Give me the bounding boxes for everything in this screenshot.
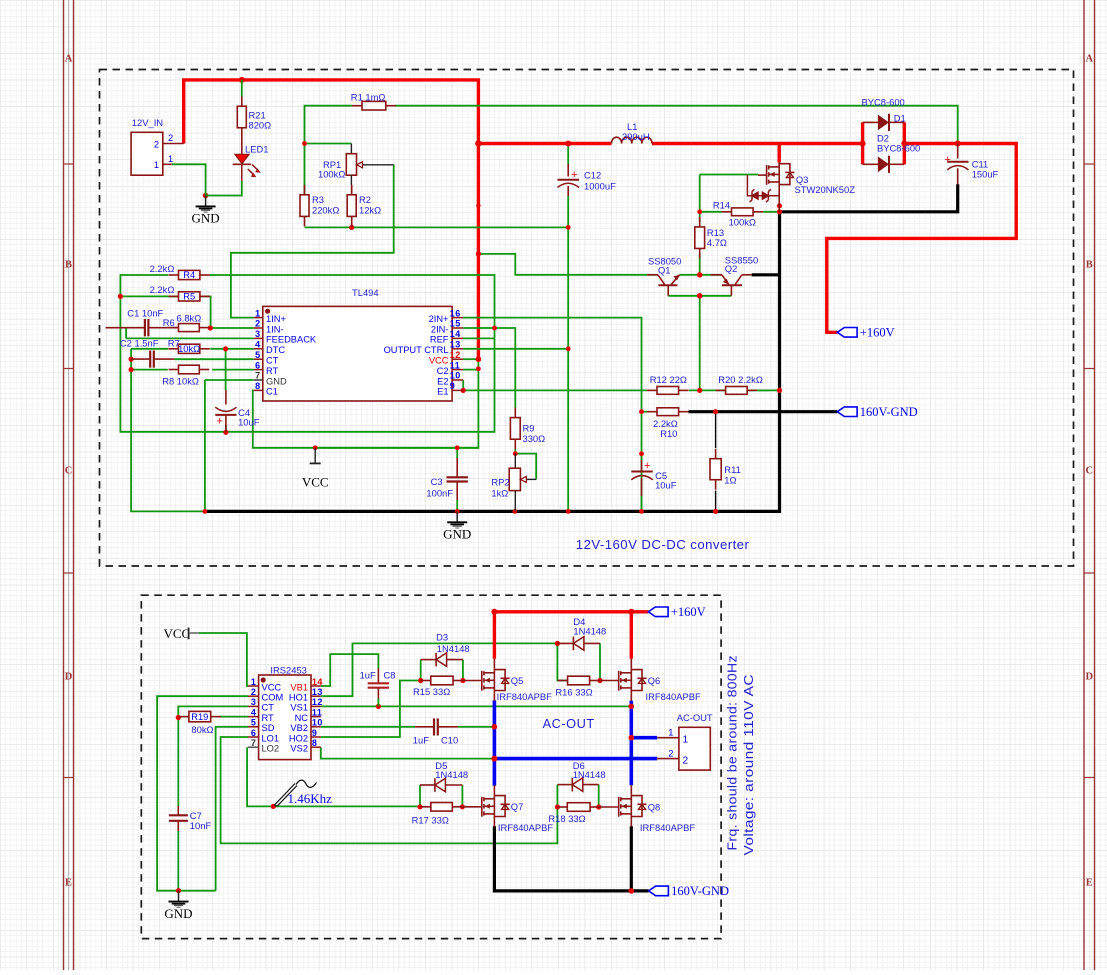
svg-text:CT: CT [266,356,279,366]
svg-text:A: A [65,54,73,65]
svg-text:100kΩ: 100kΩ [729,217,756,228]
svg-text:A: A [1086,54,1094,65]
svg-text:R7: R7 [168,337,180,348]
net flag +160V [648,605,705,619]
wire Q7 leads [493,785,495,794]
resistor R12 [647,387,689,395]
wire Q3 drain lead [778,162,780,167]
junction [476,356,482,362]
svg-text:1: 1 [668,728,673,738]
wire TL494 2IN- to R9 [463,328,515,408]
ground [443,511,471,541]
svg-text:2: 2 [255,319,261,329]
svg-text:220kΩ: 220kΩ [312,204,339,215]
svg-text:GND: GND [192,211,220,226]
wire Q6 leads [630,659,632,668]
resistor R8 [169,365,210,374]
sheet frame left border [64,0,74,970]
junction [513,451,518,456]
svg-text:VB2: VB2 [290,723,308,733]
svg-text:11: 11 [312,707,323,717]
wire Q8 leads [630,785,632,794]
wire driver bases tie [668,295,731,297]
pin 9 HO2 [311,736,321,738]
wire R1 to rectifier sense [395,106,958,144]
svg-text:HO1: HO1 [289,693,308,703]
resistor R13 [695,217,705,259]
svg-text:4.7Ω: 4.7Ω [707,237,727,248]
svg-text:SD: SD [262,723,275,733]
wire divider top to RP1 [305,143,352,145]
wire REF stub [463,337,494,339]
wire C1 left to FEEDBACK [125,328,127,338]
svg-text:4: 4 [255,340,261,350]
capacitor C3 [426,458,468,500]
pin 13 HO1 [311,695,321,697]
svg-text:+: + [945,154,951,166]
wire Q3 gate lead [758,174,766,176]
wire R5 left [120,295,209,297]
junction [566,225,571,230]
junction [129,367,134,372]
svg-text:VCC: VCC [164,626,191,641]
pin 11 NC [311,716,321,718]
capacitor C10 [413,718,458,745]
svg-text:E: E [1086,878,1093,889]
wire +160V to Q6 drain [630,612,633,659]
potentiometer RP2 [491,454,536,512]
pin 2 COM [248,695,259,697]
transistor Q2 SS8550 [711,255,759,296]
wire R7 to DTC pin [210,348,253,350]
svg-text:R16 33Ω: R16 33Ω [555,687,592,698]
junction [639,451,644,456]
wire R12 to R20 [689,389,769,391]
svg-text:15: 15 [450,319,461,329]
pin 6 LO1 [248,736,259,738]
wire ground bus [205,212,780,512]
resistor R19 [179,711,221,721]
junction [629,735,635,741]
potentiometer RP1 [318,144,394,186]
wire TL494 2IN+ feedback net [463,318,641,512]
wire E2 to E1 tie [462,380,464,390]
wire VS1 to bridge leg [321,705,632,707]
pin 14 VB1 [311,685,321,687]
junction [129,357,134,362]
wire Q5 leads [493,659,495,668]
wire LO1 to R18/D6 [221,737,558,843]
resistor R17 [421,803,463,812]
svg-text:1N4148: 1N4148 [573,769,606,780]
svg-text:IRF840APBF: IRF840APBF [640,822,696,833]
svg-text:2: 2 [168,133,173,143]
wire R8 left [131,369,168,371]
connector 12V_IN [131,117,184,175]
svg-text:OUTPUT CTRL: OUTPUT CTRL [384,345,449,355]
diode D6 1N4148 [557,778,598,792]
junction [492,326,497,331]
svg-text:Q2: Q2 [725,263,738,274]
svg-text:C10: C10 [441,735,458,746]
pin 3 CT [248,705,259,707]
svg-text:E1: E1 [437,387,448,397]
wire 12V rail to L1 [478,142,611,145]
wire RP1 to R2 [351,185,353,194]
wire rectifier output to +160V flag [827,144,1016,333]
svg-text:6.8kΩ: 6.8kΩ [177,312,202,323]
wire C2/R8 left rail to ground bus [131,359,205,511]
svg-text:1uF: 1uF [360,670,376,681]
junction [697,272,703,278]
resistor R9 [510,408,520,450]
svg-text:+160V: +160V [671,605,706,619]
svg-text:STW20NK50Z: STW20NK50Z [795,184,856,195]
transistor Q3 STW20NK50Z N-MOSFET [767,162,795,188]
wire VB2 to C10 [321,726,415,728]
wire VCC symbol row [315,447,478,449]
wire R7 left down [130,349,132,359]
svg-text:R1 1mΩ: R1 1mΩ [351,91,386,102]
junction [203,509,208,514]
svg-text:9: 9 [312,728,318,738]
svg-text:FEEDBACK: FEEDBACK [266,335,317,345]
svg-text:D1: D1 [894,113,906,124]
resistor R20 [716,387,758,395]
wire ground link [179,890,216,892]
svg-text:DTC: DTC [266,345,285,355]
resistor R10 [647,408,689,416]
svg-text:12kΩ: 12kΩ [359,204,381,215]
wire CT to C7 [178,706,248,806]
wire D4 to R16 left [557,643,567,680]
wire D5 anode branch [461,785,463,807]
resistor R1 [352,101,396,110]
wire R17 to Q7 gate [462,806,481,808]
svg-text:1IN+: 1IN+ [266,314,286,324]
diode D5 1N4148 [420,778,462,792]
pin 5 CT [254,358,263,360]
svg-text:C2 1.5nF: C2 1.5nF [120,337,159,348]
wire C12 minus to ground bus [567,196,569,511]
wire D6 anode branch [598,785,600,807]
svg-text:13: 13 [450,340,461,350]
svg-text:IRS2453: IRS2453 [270,664,306,675]
svg-text:IRF840APBF: IRF840APBF [498,822,554,833]
wire R3 bottom to C12 [305,226,569,228]
svg-text:TL494: TL494 [352,287,379,298]
wire R13 bottom to driver [699,254,701,275]
wire R16 to Q6 gate [600,680,618,682]
svg-text:GND: GND [443,527,471,542]
pin 10 VB2 [311,726,321,728]
pin 13 OUTPUT CTRL [452,348,463,350]
svg-text:R15 33Ω: R15 33Ω [413,686,450,697]
svg-text:12: 12 [312,697,323,707]
svg-text:100nF: 100nF [426,488,453,499]
wire C2 to CT pin [174,358,254,360]
svg-text:+: + [644,460,650,472]
pin 15 2IN- [452,327,463,329]
junction [860,141,866,147]
wire RP2 wiper loop [515,454,536,480]
resistor R15 [421,676,463,685]
svg-text:10uF: 10uF [655,480,677,491]
pin 2 1IN- [254,327,263,329]
svg-text:3: 3 [255,329,261,339]
svg-text:8: 8 [255,381,261,391]
resistor R5 [169,292,210,302]
svg-text:RT: RT [266,366,279,376]
wire D4 anode to R16 right [599,643,601,680]
svg-text:HO2: HO2 [289,733,308,743]
wire gate drive to Q3 [700,174,758,176]
wire C8 to VS1 [377,699,379,707]
junction [639,409,644,414]
pin 1 1IN+ [254,317,263,319]
svg-text:2.2kΩ: 2.2kΩ [150,263,175,274]
pin 5 SD [248,726,259,728]
svg-text:8: 8 [312,738,318,748]
svg-text:Voltage: around 110V AC: Voltage: around 110V AC [742,674,757,855]
wire R8 to RT pin [212,369,254,371]
junction [118,294,123,299]
svg-text:Q6: Q6 [648,675,661,686]
capacitor C7 [169,806,212,831]
wire R10 left stub [642,411,648,413]
capacitor C2 [120,337,174,367]
svg-text:VB1: VB1 [290,682,308,692]
wire AC output 2 (blue) [494,757,657,761]
junction [697,293,703,299]
wire VCC pin to C1 pin net [253,359,479,448]
wire E1 to R12 [463,389,647,391]
wire +160V bus [494,610,648,613]
svg-text:1Ω: 1Ω [724,475,736,486]
svg-text:1IN-: 1IN- [266,324,284,334]
wire 12V_IN pin1 to ground [172,164,206,195]
pin 11 C2 [452,369,463,371]
wire bridge leg B (blue) [629,701,633,786]
svg-text:1N4148: 1N4148 [573,626,606,637]
junction [417,804,422,809]
svg-text:100kΩ: 100kΩ [318,169,345,180]
wire COM to ground [157,696,248,891]
pin 4 DTC [254,348,263,350]
wire C3 bottom to ground [456,500,458,511]
svg-text:5: 5 [251,718,257,728]
wire GND pin [205,379,254,381]
svg-text:GND: GND [266,376,287,386]
wire VCC branch to Q1 collector [478,254,647,275]
svg-text:R11: R11 [724,464,741,475]
svg-text:GND: GND [164,906,192,921]
svg-text:E2: E2 [437,376,448,386]
svg-text:1: 1 [255,308,261,318]
junction [597,678,602,683]
svg-text:12V-160V DC-DC converter: 12V-160V DC-DC converter [576,537,750,552]
svg-text:B: B [65,260,72,271]
transistor Q8 IRF840APBF [619,794,647,820]
svg-text:1kΩ: 1kΩ [491,488,508,499]
svg-text:3: 3 [251,697,257,707]
svg-text:10: 10 [450,371,461,381]
svg-text:BYC8-600: BYC8-600 [862,96,905,107]
junction [513,509,518,514]
svg-text:VS2: VS2 [290,744,308,754]
diode D3 1N4148 [421,653,463,667]
svg-text:330Ω: 330Ω [523,433,546,444]
junction [629,888,635,894]
transistor Q6 IRF840APBF [619,668,647,694]
svg-text:16: 16 [450,308,461,318]
wire R4/REF rail loop [120,275,494,432]
svg-text:7: 7 [251,738,257,748]
resistor R3 [300,185,309,227]
junction [476,203,480,207]
wire R11 bottom lead [715,491,717,512]
svg-text:C12: C12 [584,170,601,181]
svg-text:R8 10kΩ: R8 10kΩ [162,375,199,386]
wire D1/D2 left bus [861,122,864,164]
wire AC output 1 (blue) [631,736,657,740]
wire HO2 to R15/D3 [321,681,421,738]
junction [955,141,961,147]
svg-text:2.2kΩ: 2.2kΩ [150,284,175,295]
svg-text:7: 7 [255,371,261,381]
wire gate node to R14 [699,175,701,212]
svg-text:Q1: Q1 [658,264,671,275]
resistor R4 [169,270,210,280]
probe marker 1.46Khz [275,780,317,806]
junction [628,609,634,615]
junction [555,641,560,646]
wire R9 to RP2 [514,449,516,454]
LED LED1 [233,138,269,181]
capacitor C8 [360,669,396,699]
svg-text:R18 33Ω: R18 33Ω [548,813,585,824]
junction [713,409,718,414]
power symbol VCC [164,626,199,641]
wire Q8 source to 160V-GND [630,826,633,891]
svg-text:R17 33Ω: R17 33Ω [412,815,449,826]
svg-text:E: E [65,878,72,889]
svg-text:150uF: 150uF [972,169,999,180]
svg-text:C1: C1 [266,387,278,397]
dashed box inverter section [141,595,721,938]
pin 12 VCC [452,358,463,360]
svg-text:6: 6 [255,360,261,370]
wire rail to C12 [567,144,569,165]
pin 3 FEEDBACK [254,337,263,339]
svg-text:390uH: 390uH [622,131,650,142]
diode D4 1N4148 [557,637,600,651]
svg-text:2: 2 [251,687,257,697]
wire R13 top [699,212,701,222]
wire DTC to C4 [225,349,227,390]
capacitor C4 [215,390,259,432]
junction [901,141,907,147]
wire bridge leg A (blue) [493,700,497,785]
svg-text:B: B [1086,260,1093,271]
svg-text:COM: COM [262,693,284,703]
diode D2 BYC8-600 [863,133,921,173]
svg-text:C3: C3 [431,476,443,487]
svg-text:2: 2 [668,749,673,759]
svg-text:R19: R19 [191,712,208,722]
svg-text:1N4148: 1N4148 [435,769,468,780]
wire TL494 OUTPUT CTRL to ground net [463,348,568,350]
svg-text:1: 1 [251,677,257,687]
svg-text:2: 2 [683,756,689,767]
svg-text:LED1: LED1 [245,143,268,154]
net flag +160V [837,326,894,340]
wire C2 pin to VCC net [463,369,478,371]
pin 10 E2 [452,379,463,381]
junction [565,141,571,147]
wire D1/D2 right bus [903,122,906,164]
wire rail to R21 [241,80,243,97]
svg-text:RP2: RP2 [491,477,509,488]
svg-text:NC: NC [295,713,309,723]
svg-text:4: 4 [251,707,257,717]
diode D1 BYC8-600 [863,113,906,132]
junction [176,888,181,893]
op-amp U1 TL494 PWM controller IC [254,287,464,401]
svg-text:Q5: Q5 [511,675,524,686]
svg-text:80kΩ: 80kΩ [191,724,213,735]
svg-text:C8: C8 [384,670,396,681]
pin 16 2IN+ [452,317,463,319]
svg-text:2IN+: 2IN+ [429,314,449,324]
junction [475,140,481,146]
svg-text:10uF: 10uF [238,417,260,428]
capacitor C5 [631,460,676,496]
junction [476,366,481,371]
wire R11 top lead [715,412,717,448]
pin 1 VCC [248,685,259,687]
dashed box DC-DC converter section [100,70,1074,567]
svg-text:BYC8-600: BYC8-600 [877,143,920,154]
svg-text:R9: R9 [523,423,535,434]
wire GND pin to ground bus [204,380,206,511]
ground [164,891,192,921]
wire VS2 to output [321,747,495,758]
svg-text:2: 2 [154,139,159,149]
wire LED cathode to ground [206,181,242,196]
resistor R2 [347,185,356,227]
wire R19 to RT [220,716,248,718]
wire D6 cathode branch [556,785,558,807]
pin 7 LO2 [248,746,259,748]
svg-text:LO2: LO2 [262,744,280,754]
wire C4 minus [225,425,227,432]
pin 14 REF [452,337,463,339]
junction [555,804,560,809]
junction [639,509,644,514]
junction [566,509,571,514]
junction [223,346,228,351]
svg-text:CT: CT [262,703,275,713]
svg-text:VCC: VCC [429,356,449,366]
svg-text:10kΩ: 10kΩ [178,344,200,354]
junction [476,251,481,256]
wire C10 to bridge leg [458,726,495,728]
svg-text:13: 13 [312,687,323,697]
svg-text:14: 14 [312,677,323,687]
wire VB1 to C8 [321,654,379,686]
junction [697,209,702,214]
